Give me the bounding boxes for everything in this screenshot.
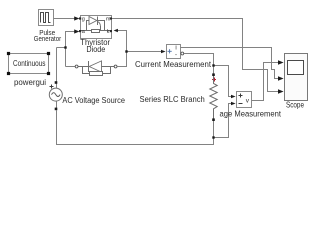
svg-text:k: k <box>107 29 110 35</box>
svg-text:powergui: powergui <box>14 78 46 87</box>
powergui continuous block <box>9 54 49 74</box>
svg-text:Diode: Diode <box>86 45 105 54</box>
wire k-net: thyristor k to diode right and current measurement <box>118 31 162 67</box>
wire v-net: voltage measurement to scope in1 <box>252 63 279 101</box>
thyristor snubber box <box>92 30 100 33</box>
AC ports <box>55 81 58 84</box>
svg-text:Generator: Generator <box>34 34 62 43</box>
svg-text:Series RLC Branch: Series RLC Branch <box>140 95 205 104</box>
svg-text:i: i <box>175 46 176 52</box>
junction k-net <box>125 50 127 52</box>
selection handles <box>7 52 50 75</box>
AC plus sign <box>50 85 54 89</box>
wire AC bottom net <box>57 104 232 145</box>
thyristor port nubs <box>79 17 112 32</box>
svg-text:m: m <box>106 16 111 22</box>
wire m-net: thyristor m to scope in3 <box>112 19 278 92</box>
wire a-net: AC+ to thyristor a and diode left <box>57 32 76 82</box>
pulse generator icon <box>41 13 51 23</box>
svg-text:Scope: Scope <box>286 101 304 110</box>
resistor zigzag <box>210 76 217 119</box>
thyristor triangle <box>89 17 97 25</box>
svg-text:Continuous: Continuous <box>13 59 46 68</box>
scope block <box>285 54 308 101</box>
pulse generator block <box>39 10 54 26</box>
svg-text:age Measurement: age Measurement <box>220 110 282 119</box>
voltage measurement block <box>237 92 252 108</box>
junction bottom <box>212 136 214 138</box>
AC voltage source <box>56 83 58 89</box>
wire gate: pulse generator to thyristor g <box>54 18 76 20</box>
diode triangle <box>89 61 101 72</box>
thyristor block <box>81 16 112 39</box>
current measurement block <box>167 45 181 59</box>
svg-text:AC Voltage Source: AC Voltage Source <box>62 96 125 105</box>
thyristor icon <box>81 17 111 31</box>
diode block (icon only) <box>75 61 117 74</box>
red plus <box>212 78 216 82</box>
wire i-net: current measurement i to scope in2 <box>181 48 279 79</box>
wire CM minus to RLC top and voltage measurement plus <box>184 54 231 97</box>
thyristor gate hook <box>98 22 101 27</box>
svg-text:g: g <box>82 17 85 23</box>
svg-text:-: - <box>175 52 177 58</box>
svg-text:Current Measurement: Current Measurement <box>135 60 212 69</box>
junction a-net <box>64 46 66 48</box>
diode snubber box <box>90 72 103 76</box>
series RLC branch resistor <box>212 73 215 76</box>
